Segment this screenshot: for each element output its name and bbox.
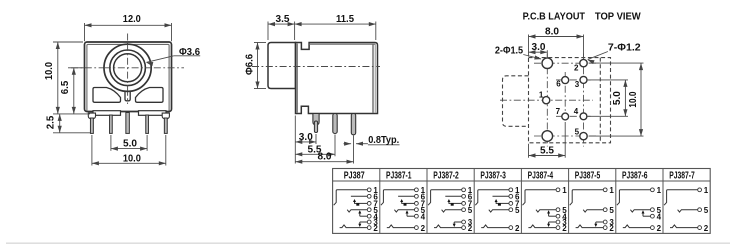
- terminal 5 circle col0: [367, 208, 371, 212]
- circuit cell PJ387-1: [381, 186, 426, 233]
- wire terminal 1 col2: [428, 190, 462, 205]
- side pin A: [313, 114, 319, 125]
- pcb pad 3: [580, 76, 587, 83]
- wire terminal 2 col1: [387, 225, 415, 228]
- terminal 2 circle col7: [698, 226, 702, 230]
- pcb dim 8.0 extensions: [528, 35, 530, 57]
- terminal 1 circle col7: [698, 188, 702, 192]
- dim 3.5 / 11.5 extensions: [267, 22, 269, 41]
- pcb pad 5: [580, 132, 587, 139]
- svg-text:1: 1: [562, 186, 567, 195]
- svg-text:1: 1: [657, 186, 662, 195]
- svg-text:2: 2: [562, 224, 567, 233]
- front outer circle (barrel): [104, 44, 151, 91]
- terminal 2 circle col5: [603, 226, 607, 230]
- circuit cell PJ387-7: [664, 186, 709, 233]
- svg-text:5: 5: [704, 206, 709, 215]
- pcb centerline row 7-4: [556, 115, 593, 117]
- front pin 1 shoulder: [88, 113, 95, 119]
- wire terminal 4 contact col6: [643, 215, 651, 217]
- svg-text:8.0: 8.0: [318, 151, 332, 163]
- terminal 2 circle col6: [651, 226, 655, 230]
- svg-text:2-Φ1.5: 2-Φ1.5: [495, 45, 523, 57]
- front horizontal centerline: [71, 67, 184, 69]
- svg-text:1: 1: [539, 91, 544, 100]
- terminal 4 circle col0: [367, 214, 371, 218]
- svg-text:1: 1: [609, 186, 614, 195]
- wire terminal 7 switch col0: [355, 202, 368, 204]
- side centerline: [252, 66, 380, 68]
- wire terminal 4 contact col0: [360, 215, 368, 217]
- terminal 2 circle col4: [556, 226, 560, 230]
- svg-text:5: 5: [515, 206, 520, 215]
- pcb inner dashed line: [599, 58, 601, 143]
- pcb dim 8.0 line: [529, 36, 584, 38]
- terminal 4 circle col4: [556, 214, 560, 218]
- svg-text:5.0: 5.0: [123, 138, 137, 150]
- circuit cell PJ387-3: [475, 186, 520, 233]
- wire terminal 5 spring col1: [394, 210, 414, 212]
- dim 6.5 line: [73, 68, 75, 114]
- front circle centerline redraw: [104, 67, 151, 69]
- pcb centerline row 6-3: [556, 79, 593, 81]
- terminal 1 circle col4: [556, 188, 560, 192]
- pcb dim 5.5 extensions: [528, 144, 530, 158]
- terminal 5 circle col7: [698, 208, 702, 212]
- terminal 1 circle col3: [509, 188, 513, 192]
- terminal 2 circle col3: [509, 226, 513, 230]
- pcb centerline row top: [534, 62, 596, 64]
- table column separator 2: [426, 169, 428, 234]
- dim 5.5 line: [295, 153, 335, 155]
- pcb centerline row 1: [500, 99, 593, 101]
- svg-text:8.0: 8.0: [545, 26, 559, 38]
- wire terminal 1 col3: [475, 190, 509, 205]
- svg-text:4: 4: [421, 212, 426, 221]
- wire terminal 1 col4: [523, 190, 557, 205]
- side body inner right line: [372, 44, 374, 113]
- wire terminal 3 contact col0: [360, 221, 368, 223]
- side body outline with notches: [296, 43, 378, 114]
- side pin C: [351, 114, 355, 135]
- wire terminal 2 col2: [434, 225, 462, 228]
- svg-text:PJ387: PJ387: [344, 170, 365, 181]
- wire terminal 4 contact col4: [549, 215, 557, 217]
- front center slot: [125, 87, 130, 101]
- svg-text:2: 2: [373, 224, 378, 233]
- terminal 1 circle col1: [415, 188, 419, 192]
- svg-text:12.0: 12.0: [123, 13, 141, 25]
- dim 3.0 line: [295, 141, 316, 143]
- circuit cell PJ387-2: [428, 186, 473, 233]
- pcb dim 10.0 extensions: [589, 62, 644, 64]
- dim 12.0 extension lines: [84, 23, 86, 41]
- pcb centerline col1: [546, 54, 548, 147]
- wire terminal 3 contact col5: [596, 221, 604, 223]
- terminal 3 circle col4: [556, 220, 560, 224]
- svg-text:PJ387-1: PJ387-1: [386, 170, 412, 181]
- wire terminal 5 spring col7: [678, 210, 698, 212]
- svg-text:TOP VIEW: TOP VIEW: [595, 10, 641, 22]
- wire terminal 1 col6: [617, 190, 651, 205]
- front pin 3: [126, 113, 130, 134]
- terminal 2 circle col1: [415, 226, 419, 230]
- svg-text:10.0: 10.0: [43, 62, 55, 80]
- wire terminal 2 col6: [623, 225, 651, 228]
- svg-text:PJ387-4: PJ387-4: [528, 170, 554, 181]
- pcb dim 5.5 line: [529, 155, 566, 157]
- pcb layout group: [495, 10, 644, 157]
- wire terminal 6 col1: [398, 195, 415, 197]
- pcb dim 3.0 extension: [546, 50, 548, 57]
- terminal 3 circle col5: [603, 220, 607, 224]
- svg-text:3.0: 3.0: [299, 131, 313, 143]
- svg-text:7: 7: [556, 107, 561, 116]
- wire terminal 2 col5: [576, 225, 604, 228]
- terminal 7 circle col1: [415, 202, 419, 206]
- wire terminal 7 switch col3: [496, 202, 509, 204]
- svg-text:10.0: 10.0: [123, 152, 141, 164]
- front left pocket: [93, 88, 121, 103]
- dim 8.0 line: [295, 161, 353, 163]
- dim 0.8Typ text: [368, 144, 400, 146]
- dim phi6.6 line: [257, 43, 259, 89]
- terminal 7 circle col0: [367, 202, 371, 206]
- front pin 5 shoulder: [162, 113, 169, 119]
- pcb centerline row bottom: [534, 135, 596, 137]
- svg-text:6.5: 6.5: [59, 81, 71, 95]
- wire terminal 2 col3: [481, 225, 509, 228]
- svg-text:5.5: 5.5: [540, 144, 554, 156]
- dim 8.0 extension pinC: [353, 136, 355, 164]
- svg-text:7-Φ1.2: 7-Φ1.2: [608, 41, 641, 53]
- pcb centerline col3: [583, 54, 585, 147]
- wire terminal 5 spring col6: [630, 210, 650, 212]
- svg-text:2: 2: [609, 224, 614, 233]
- svg-text:PJ387-5: PJ387-5: [575, 170, 601, 181]
- svg-text:PJ387-3: PJ387-3: [480, 170, 506, 181]
- table column separator 4: [520, 169, 522, 234]
- pcb mount hole bottom: [542, 131, 553, 142]
- table header separator: [333, 180, 711, 182]
- wire terminal 4 contact col1: [407, 215, 415, 217]
- svg-text:2.5: 2.5: [44, 116, 56, 130]
- terminal 1 circle col6: [651, 188, 655, 192]
- terminal 1 circle col2: [462, 188, 466, 192]
- svg-text:P.C.B LAYOUT: P.C.B LAYOUT: [523, 10, 586, 22]
- svg-text:3.5: 3.5: [276, 13, 290, 25]
- terminal 4 circle col1: [415, 214, 419, 218]
- dim 10.0 left extension lines: [53, 41, 83, 43]
- front pin 2: [110, 115, 113, 133]
- wire terminal 2 col0: [340, 225, 368, 228]
- terminal 5 circle col5: [603, 208, 607, 212]
- front pin 1: [90, 118, 93, 133]
- svg-text:3.0: 3.0: [532, 41, 546, 53]
- wire terminal 3 contact col2: [454, 221, 462, 223]
- svg-text:2: 2: [515, 224, 520, 233]
- wire terminal 5 spring col4: [536, 210, 556, 212]
- svg-text:11.5: 11.5: [336, 13, 354, 25]
- terminal 5 circle col3: [509, 208, 513, 212]
- terminal 2 circle col0: [367, 226, 371, 230]
- svg-text:PJ387-6: PJ387-6: [622, 170, 648, 181]
- table column separator 1: [379, 169, 381, 234]
- circuit cell PJ387-5: [570, 186, 615, 233]
- svg-text:3: 3: [575, 80, 580, 89]
- svg-text:10.0: 10.0: [627, 91, 639, 107]
- terminal 7 circle col2: [462, 202, 466, 206]
- dim phi3.6 leader: [174, 55, 201, 57]
- svg-text:5: 5: [609, 206, 614, 215]
- terminal 6 circle col0: [367, 194, 371, 198]
- terminal 1 circle col5: [603, 188, 607, 192]
- front right foot: [139, 111, 167, 116]
- dim 10.0 left line: [57, 42, 59, 114]
- svg-text:5.0: 5.0: [611, 91, 623, 105]
- dim 10.0 bottom extensions: [91, 135, 93, 166]
- front view group: [43, 13, 200, 165]
- table column separator 5: [568, 169, 570, 234]
- terminal 5 circle col1: [415, 208, 419, 212]
- wire terminal 3 contact col4: [549, 221, 557, 223]
- wire terminal 2 col7: [670, 225, 698, 228]
- dim 5.5 extension pinB: [334, 135, 336, 157]
- pcb dim 3.0 line: [529, 51, 548, 53]
- svg-text:2: 2: [574, 63, 579, 72]
- table outer border: [333, 169, 711, 234]
- wire terminal 5 spring col3: [489, 210, 509, 212]
- pcb barrel protrusion dashed: [503, 76, 529, 127]
- dim phi6.6 extensions: [254, 42, 266, 44]
- front pin 5: [164, 118, 167, 133]
- table column separator 6: [615, 169, 617, 234]
- svg-text:4: 4: [657, 212, 662, 221]
- side pin B: [333, 114, 337, 134]
- dim 2.5 extension bottom: [53, 132, 90, 134]
- dim 11.5 line: [295, 23, 376, 25]
- dim 12.0 line: [85, 24, 172, 26]
- front right pocket: [136, 88, 164, 103]
- terminal 2 circle col2: [462, 226, 466, 230]
- dim 0.8Typ leader arrows: [356, 143, 368, 145]
- svg-text:PJ387-2: PJ387-2: [433, 170, 459, 181]
- wire terminal 1 col7: [664, 190, 698, 205]
- pcb pad 4: [580, 113, 587, 120]
- pcb pad 7: [562, 113, 569, 120]
- front ring circle: [110, 50, 146, 86]
- svg-text:Φ3.6: Φ3.6: [179, 46, 200, 58]
- dim 2.5 line: [59, 114, 61, 133]
- side barrel: [268, 43, 296, 89]
- svg-text:2: 2: [468, 224, 473, 233]
- pcb pad 6: [562, 77, 569, 84]
- circuit cell PJ387: [334, 186, 379, 233]
- svg-text:0.8Typ.: 0.8Typ.: [368, 134, 399, 146]
- wire terminal 5 spring col2: [442, 210, 462, 212]
- side body left edge thick: [296, 44, 298, 113]
- terminal 6 circle col1: [415, 194, 419, 198]
- front left foot: [93, 111, 121, 116]
- terminal 4 circle col6: [651, 214, 655, 218]
- svg-text:Φ6.6: Φ6.6: [243, 54, 255, 75]
- svg-text:5: 5: [575, 127, 580, 136]
- table column separator 3: [473, 169, 475, 234]
- side view group: [243, 13, 399, 164]
- pcb dim 10.0 line: [640, 63, 642, 136]
- front hole circle: [114, 54, 142, 82]
- wire terminal 7 switch col2: [449, 202, 462, 204]
- terminal 5 circle col6: [651, 208, 655, 212]
- svg-text:2: 2: [657, 224, 662, 233]
- dim 10.0 bottom line: [92, 162, 166, 164]
- wire terminal 6 col3: [493, 195, 510, 197]
- dim 6.5 extension: [68, 67, 84, 69]
- terminal 6 circle col2: [462, 194, 466, 198]
- svg-text:5: 5: [468, 206, 473, 215]
- terminal 6 circle col3: [509, 194, 513, 198]
- terminal 5 circle col4: [556, 208, 560, 212]
- wire terminal 5 spring col0: [347, 210, 367, 212]
- dim 3.5 line: [268, 23, 295, 25]
- wire terminal 6 col0: [351, 195, 368, 197]
- wire terminal 1 col1: [381, 190, 415, 205]
- pcb pad 2: [580, 59, 587, 66]
- pcb dim 5.0 extensions: [588, 79, 628, 81]
- front vertical centerline: [127, 34, 129, 105]
- front body outline: [85, 42, 172, 112]
- terminal 5 circle col2: [462, 208, 466, 212]
- terminal 3 circle col0: [367, 220, 371, 224]
- svg-text:4: 4: [574, 107, 579, 116]
- wire terminal 5 spring col5: [583, 210, 603, 212]
- front pin 4: [146, 115, 149, 133]
- dim 3.0 extension pinA: [315, 134, 317, 144]
- wire terminal 6 col2: [445, 195, 462, 197]
- bottom rule: [6, 242, 730, 244]
- side body top shading: [309, 43, 375, 45]
- wire terminal 2 col4: [528, 225, 556, 228]
- pcb dashed outline: [529, 58, 611, 143]
- table column separator 7: [662, 169, 664, 234]
- svg-text:2: 2: [704, 224, 709, 233]
- wire terminal 7 switch col1: [402, 202, 415, 204]
- pcb centerline col2: [564, 72, 566, 122]
- circuit cell PJ387-6: [617, 186, 662, 233]
- pcb pad 1: [543, 97, 550, 104]
- table group: [333, 169, 711, 234]
- terminal 3 circle col2: [462, 220, 466, 224]
- svg-text:6: 6: [556, 80, 561, 89]
- pcb dim 5.0 line: [624, 80, 626, 116]
- side bottom left extension: [294, 116, 296, 164]
- circuit cell PJ387-4: [523, 186, 568, 233]
- wire terminal 1 col0: [334, 190, 368, 205]
- svg-text:PJ387-7: PJ387-7: [669, 170, 695, 181]
- svg-text:2: 2: [421, 224, 426, 233]
- svg-text:1: 1: [704, 186, 709, 195]
- terminal 7 circle col3: [509, 202, 513, 206]
- dim 5.0 bottom line: [111, 148, 147, 150]
- wire terminal 1 col5: [570, 190, 604, 205]
- terminal 1 circle col0: [367, 188, 371, 192]
- pcb mount hole top: [542, 58, 553, 69]
- dim 5.0 bottom extensions: [110, 135, 112, 151]
- front body inner edge shading: [87, 44, 169, 110]
